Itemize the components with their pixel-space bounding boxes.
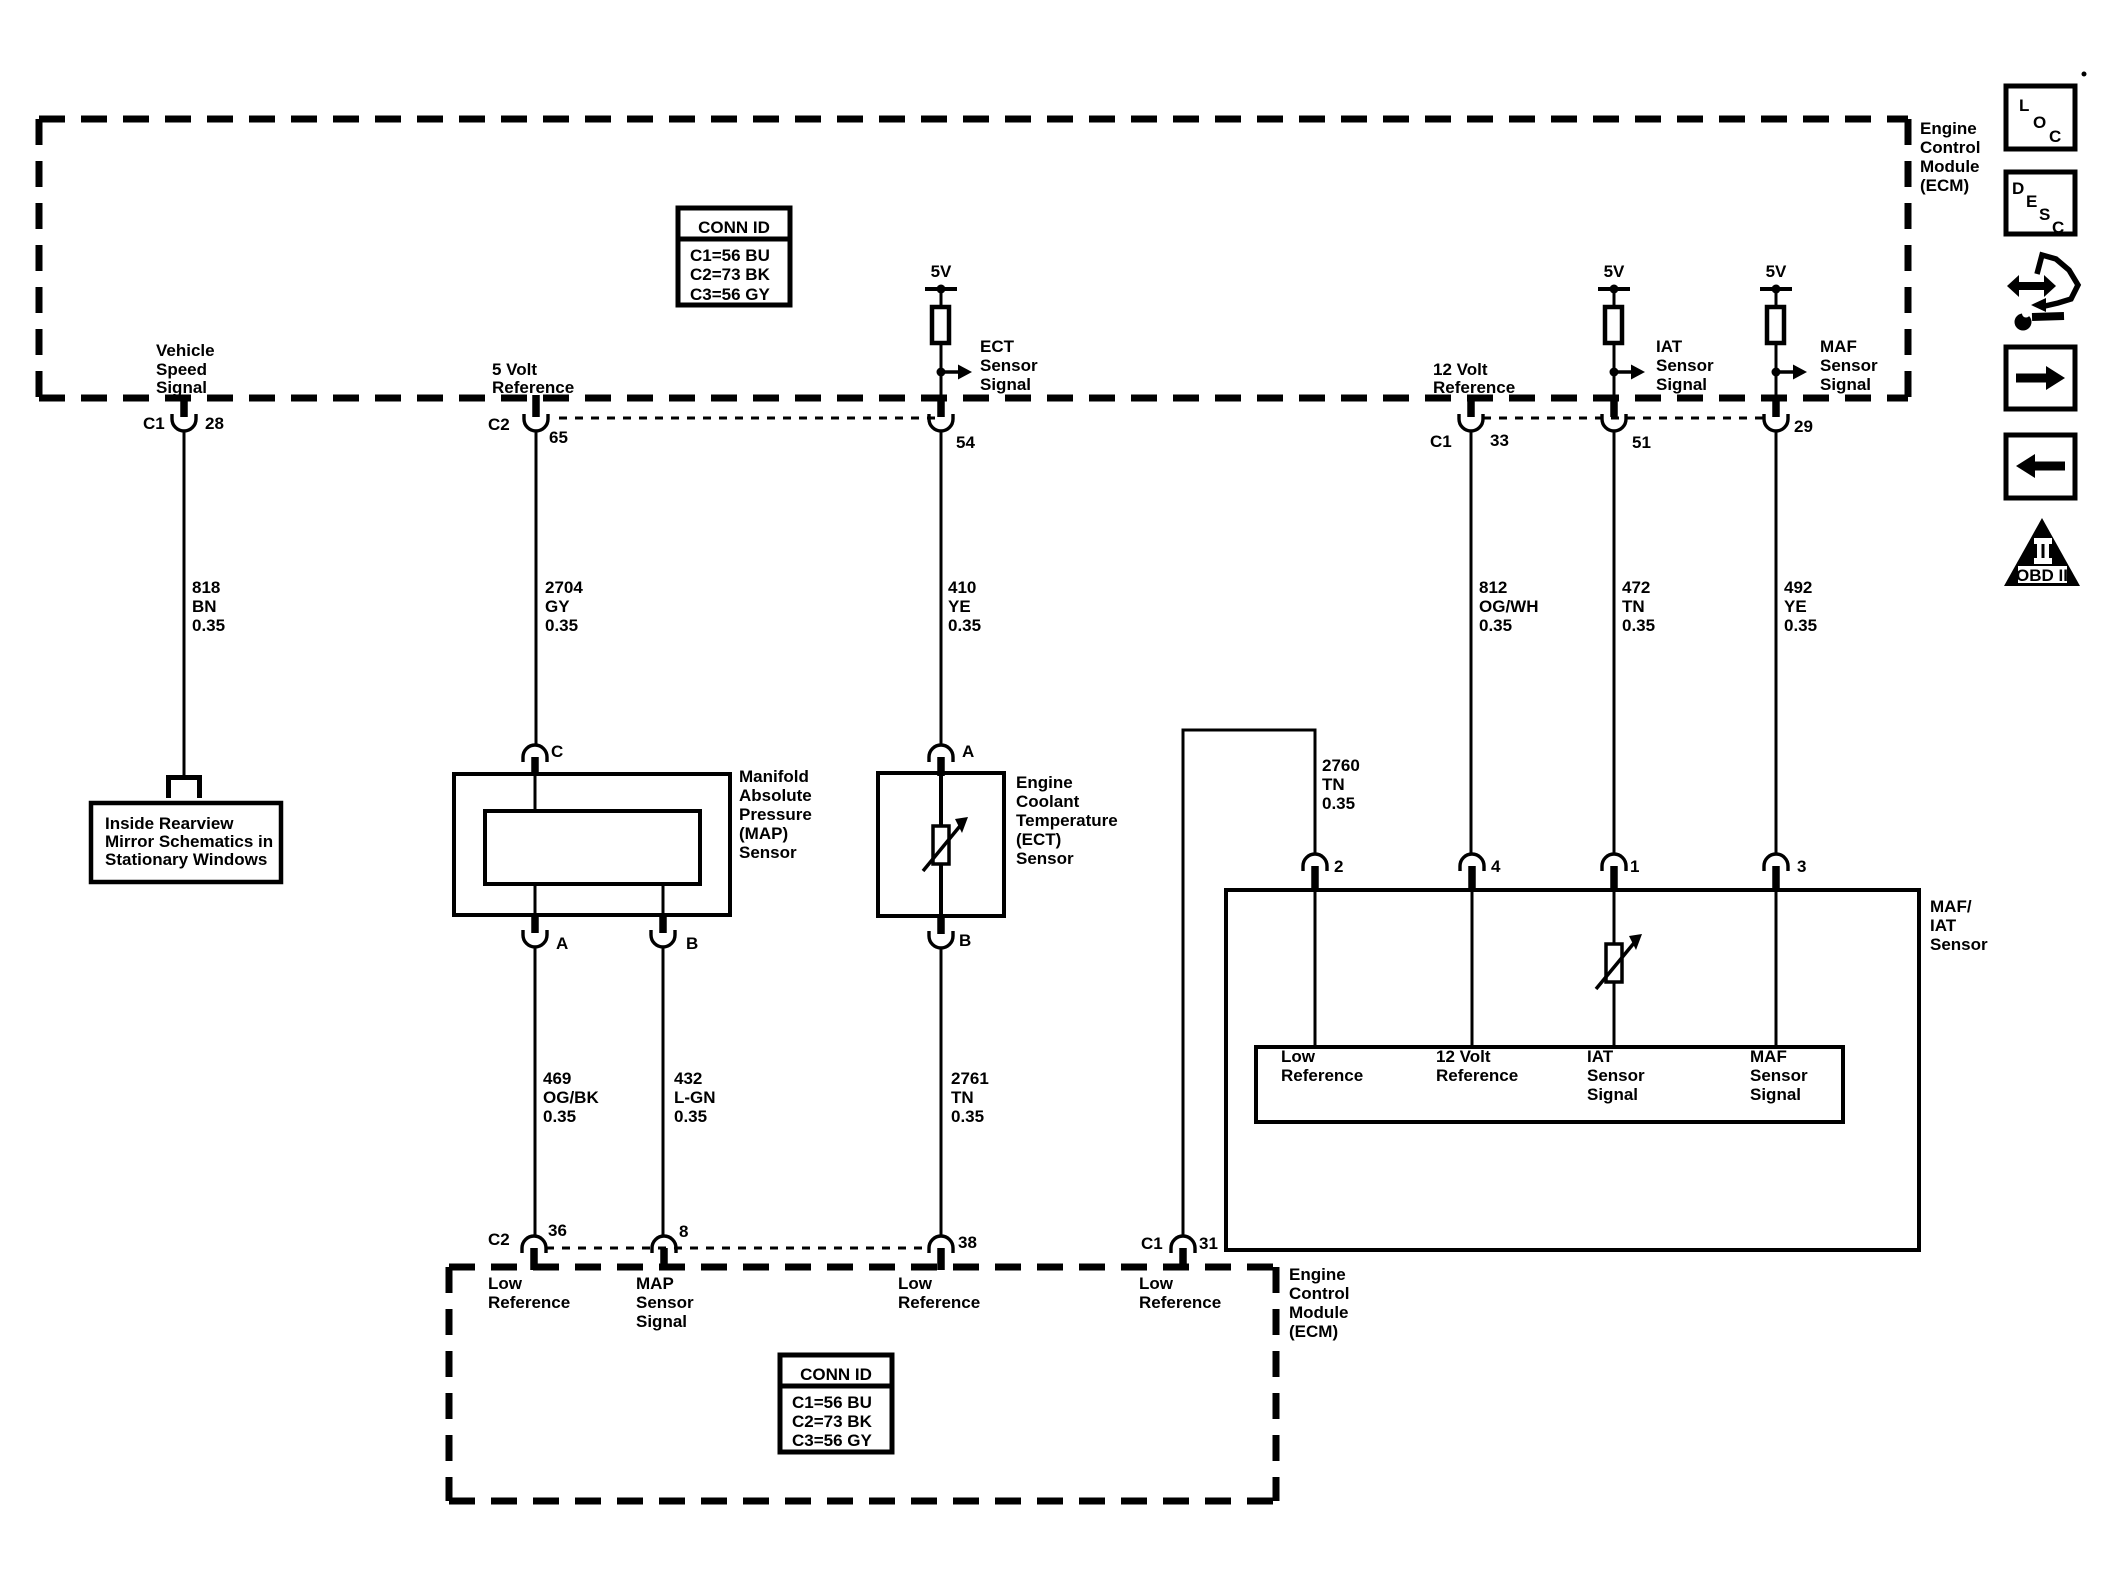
svg-text:GY: GY (545, 597, 570, 616)
icon wrench with arrows (2007, 255, 2078, 331)
svg-text:2704: 2704 (545, 578, 583, 597)
node Vehicle Speed Signal label (156, 341, 215, 397)
svg-text:0.35: 0.35 (948, 616, 981, 635)
Inside Rearview Mirror reference box (91, 803, 281, 882)
connector C2 pin 65 (488, 395, 568, 447)
svg-text:CONN ID: CONN ID (800, 1365, 872, 1384)
connector C1 pin 31 (1141, 1234, 1218, 1270)
svg-text:5V: 5V (931, 262, 952, 281)
svg-text:Sensor: Sensor (1930, 935, 1988, 954)
svg-text:TN: TN (1622, 597, 1645, 616)
wire 492 YE 0.35 (1776, 430, 1817, 854)
junction IAT signal (1610, 368, 1619, 377)
wire 818 BN 0.35 (184, 430, 225, 775)
svg-text:29: 29 (1794, 417, 1813, 436)
svg-text:Control: Control (1289, 1284, 1349, 1303)
svg-text:0.35: 0.35 (543, 1107, 576, 1126)
label MAF/IAT Sensor (1930, 897, 1988, 954)
wire (1613, 343, 1616, 398)
svg-text:28: 28 (205, 414, 224, 433)
svg-text:(ECM): (ECM) (1920, 176, 1969, 195)
svg-text:Sensor: Sensor (1587, 1066, 1645, 1085)
5V supply IAT (1598, 262, 1630, 307)
svg-text:(MAP): (MAP) (739, 824, 788, 843)
MAF/IAT pin function labels (1281, 1047, 1808, 1104)
svg-text:Sensor: Sensor (1820, 356, 1878, 375)
terminator to rearview mirror schematic (169, 778, 200, 799)
svg-text:Module: Module (1289, 1303, 1349, 1322)
5V supply ECT (925, 262, 957, 307)
svg-text:Low: Low (1281, 1047, 1316, 1066)
svg-text:33: 33 (1490, 431, 1509, 450)
svg-text:818: 818 (192, 578, 220, 597)
wire 812 OG/WH 0.35 (1471, 430, 1539, 854)
svg-text:Signal: Signal (1750, 1085, 1801, 1104)
svg-text:Low: Low (898, 1274, 933, 1293)
svg-text:TN: TN (951, 1088, 974, 1107)
svg-text:Engine: Engine (1920, 119, 1977, 138)
svg-text:5V: 5V (1604, 262, 1625, 281)
svg-text:36: 36 (548, 1221, 567, 1240)
svg-text:YE: YE (1784, 597, 1807, 616)
svg-text:S: S (2039, 205, 2050, 224)
svg-text:0.35: 0.35 (1784, 616, 1817, 635)
svg-text:Speed: Speed (156, 360, 207, 379)
arrow MAF Sensor Signal (1776, 337, 1878, 394)
arrow IAT Sensor Signal (1614, 337, 1714, 394)
svg-text:Low: Low (488, 1274, 523, 1293)
svg-text:YE: YE (948, 597, 971, 616)
svg-text:492: 492 (1784, 578, 1812, 597)
svg-text:0.35: 0.35 (674, 1107, 707, 1126)
svg-text:Reference: Reference (898, 1293, 980, 1312)
svg-text:C: C (2049, 127, 2061, 146)
connector pin A at ECT (929, 742, 974, 776)
svg-text:12 Volt: 12 Volt (1436, 1047, 1491, 1066)
svg-text:31: 31 (1199, 1234, 1218, 1253)
svg-text:Signal: Signal (980, 375, 1031, 394)
svg-text:IAT: IAT (1587, 1047, 1614, 1066)
svg-text:C1: C1 (143, 414, 165, 433)
svg-text:C: C (551, 742, 563, 761)
svg-text:L: L (2019, 96, 2029, 115)
svg-text:C1=56 BU: C1=56 BU (792, 1393, 872, 1412)
svg-text:Sensor: Sensor (1016, 849, 1074, 868)
connector pin 29 (1764, 395, 1813, 436)
svg-text:38: 38 (958, 1233, 977, 1252)
wire 410 YE 0.35 (941, 430, 981, 745)
connector pin 51 (1602, 395, 1651, 452)
svg-text:Sensor: Sensor (1750, 1066, 1808, 1085)
ECT sensor box (878, 773, 1004, 916)
svg-text:CONN ID: CONN ID (698, 218, 770, 237)
svg-text:C3=56 GY: C3=56 GY (690, 285, 771, 304)
svg-text:C1: C1 (1141, 1234, 1163, 1253)
thermistor ECT (923, 817, 968, 871)
svg-text:(ECT): (ECT) (1016, 830, 1061, 849)
svg-text:C1: C1 (1430, 432, 1452, 451)
ECM lower box dashed border (449, 1267, 1276, 1501)
wire 2760 TN 0.35 routed up and over (1183, 730, 1360, 1236)
wire (1775, 343, 1778, 398)
label Engine Control Module (ECM) top right (1920, 119, 1980, 195)
label Engine Coolant Temperature (ECT) Sensor (1016, 773, 1118, 868)
connector pin B at ECT (929, 914, 971, 950)
node 5 Volt Reference label (492, 360, 574, 397)
svg-text:5V: 5V (1766, 262, 1787, 281)
svg-text:TN: TN (1322, 775, 1345, 794)
svg-text:Coolant: Coolant (1016, 792, 1080, 811)
svg-text:Sensor: Sensor (636, 1293, 694, 1312)
thermistor IAT (1596, 934, 1642, 989)
svg-text:469: 469 (543, 1069, 571, 1088)
svg-text:Absolute: Absolute (739, 786, 812, 805)
connector pin 38 (929, 1233, 977, 1270)
resistor IAT pull-up (1605, 307, 1622, 343)
svg-text:Module: Module (1920, 157, 1980, 176)
wire 2761 TN 0.35 (941, 948, 989, 1236)
svg-text:54: 54 (956, 433, 975, 452)
svg-text:8: 8 (679, 1222, 688, 1241)
svg-text:Reference: Reference (1436, 1066, 1518, 1085)
svg-text:IAT: IAT (1656, 337, 1683, 356)
svg-text:C2=73 BK: C2=73 BK (690, 265, 771, 284)
svg-text:Control: Control (1920, 138, 1980, 157)
connector pin 2 at MAF/IAT (1303, 854, 1343, 891)
connector pin B at MAP (651, 913, 698, 953)
svg-text:Sensor: Sensor (980, 356, 1038, 375)
connector pin 3 at MAF/IAT (1764, 854, 1806, 891)
svg-text:E: E (2026, 192, 2037, 211)
svg-text:0.35: 0.35 (545, 616, 578, 635)
label Manifold Absolute Pressure (MAP) Sensor (739, 767, 812, 862)
wire 469 OG/BK 0.35 (535, 947, 599, 1236)
svg-text:OG/WH: OG/WH (1479, 597, 1539, 616)
arrow ECT Sensor Signal (941, 337, 1038, 394)
connector pin 1 at MAF/IAT (1602, 854, 1639, 891)
svg-text:Manifold: Manifold (739, 767, 809, 786)
connector pin C at MAP (523, 742, 563, 776)
svg-text:472: 472 (1622, 578, 1650, 597)
connector C2 pin 36 (488, 1221, 567, 1270)
icon LOC (2006, 86, 2075, 149)
svg-text:0.35: 0.35 (951, 1107, 984, 1126)
svg-text:Engine: Engine (1289, 1265, 1346, 1284)
connector C1 pin 28 (143, 395, 224, 433)
svg-text:MAF: MAF (1820, 337, 1857, 356)
svg-text:Signal: Signal (1656, 375, 1707, 394)
svg-text:Signal: Signal (156, 378, 207, 397)
svg-text:Low: Low (1139, 1274, 1174, 1293)
harness dotted line 36 to 38 (546, 1247, 929, 1250)
ECM top box dashed border (39, 119, 1908, 398)
svg-text:0.35: 0.35 (192, 616, 225, 635)
svg-text:OBD II: OBD II (2016, 566, 2068, 585)
icon arrow left (2006, 435, 2075, 498)
svg-text:2760: 2760 (1322, 756, 1360, 775)
icon arrow right (2006, 347, 2075, 409)
CONN ID table bottom (780, 1355, 892, 1452)
resistor ECT pull-up (932, 307, 949, 343)
svg-text:Signal: Signal (1587, 1085, 1638, 1104)
connector pin A at MAP (523, 913, 568, 953)
MAF/IAT sensor box (1226, 890, 1919, 1250)
svg-text:Mirror Schematics in: Mirror Schematics in (105, 832, 273, 851)
CONN ID table top (678, 208, 790, 305)
5V supply MAF (1760, 262, 1792, 307)
harness dotted line 65 to 54 (559, 417, 935, 420)
svg-text:Engine: Engine (1016, 773, 1073, 792)
svg-text:0.35: 0.35 (1322, 794, 1355, 813)
stray dot top right (2082, 72, 2087, 77)
svg-text:2: 2 (1334, 857, 1343, 876)
svg-text:(ECM): (ECM) (1289, 1322, 1338, 1341)
wire (940, 343, 943, 398)
svg-text:A: A (962, 742, 974, 761)
svg-text:Pressure: Pressure (739, 805, 812, 824)
svg-text:1: 1 (1630, 857, 1639, 876)
svg-text:O: O (2033, 113, 2046, 132)
connector pin 54 (929, 395, 975, 452)
svg-text:L-GN: L-GN (674, 1088, 716, 1107)
svg-text:Temperature: Temperature (1016, 811, 1118, 830)
svg-text:5 Volt: 5 Volt (492, 360, 537, 379)
svg-text:C: C (2052, 218, 2064, 237)
svg-text:812: 812 (1479, 578, 1507, 597)
svg-text:4: 4 (1491, 857, 1501, 876)
svg-text:C3=56 GY: C3=56 GY (792, 1431, 873, 1450)
connector C1 pin 33 (1430, 395, 1509, 451)
svg-text:B: B (686, 934, 698, 953)
svg-text:MAF: MAF (1750, 1047, 1787, 1066)
connector pin 4 at MAF/IAT (1460, 854, 1501, 891)
svg-text:Reference: Reference (1281, 1066, 1363, 1085)
svg-text:Stationary Windows: Stationary Windows (105, 850, 267, 869)
icon DESC (2006, 172, 2075, 237)
node 12 Volt Reference label (1433, 360, 1515, 397)
svg-text:65: 65 (549, 428, 568, 447)
svg-text:410: 410 (948, 578, 976, 597)
label Engine Control Module (ECM) lower (1289, 1265, 1349, 1341)
svg-text:C2: C2 (488, 415, 510, 434)
svg-text:BN: BN (192, 597, 217, 616)
svg-text:Vehicle: Vehicle (156, 341, 215, 360)
svg-text:MAF/: MAF/ (1930, 897, 1972, 916)
svg-text:Inside Rearview: Inside Rearview (105, 814, 234, 833)
svg-text:Signal: Signal (636, 1312, 687, 1331)
wire 432 L-GN 0.35 (663, 947, 716, 1236)
svg-text:C2: C2 (488, 1230, 510, 1249)
svg-text:C1=56 BU: C1=56 BU (690, 246, 770, 265)
svg-text:ECT: ECT (980, 337, 1015, 356)
ECM lower pin function labels (488, 1274, 1221, 1331)
svg-text:432: 432 (674, 1069, 702, 1088)
svg-text:IAT: IAT (1930, 916, 1957, 935)
junction MAF signal (1772, 368, 1781, 377)
svg-text:0.35: 0.35 (1622, 616, 1655, 635)
svg-text:Sensor: Sensor (1656, 356, 1714, 375)
harness dotted line 33 to 29 (1483, 417, 1766, 420)
wire 2704 GY 0.35 (536, 430, 583, 745)
svg-text:Signal: Signal (1820, 375, 1871, 394)
svg-text:3: 3 (1797, 857, 1806, 876)
svg-text:Reference: Reference (492, 378, 574, 397)
MAP sensor box (454, 774, 730, 915)
svg-text:2761: 2761 (951, 1069, 989, 1088)
svg-text:A: A (556, 934, 568, 953)
svg-text:12 Volt: 12 Volt (1433, 360, 1488, 379)
svg-text:51: 51 (1632, 433, 1651, 452)
svg-text:0.35: 0.35 (1479, 616, 1512, 635)
svg-text:OG/BK: OG/BK (543, 1088, 599, 1107)
wire 472 TN 0.35 (1614, 430, 1655, 854)
connector pin 8 (652, 1222, 688, 1270)
svg-text:Sensor: Sensor (739, 843, 797, 862)
icon OBD II triangle (2004, 518, 2080, 586)
svg-text:MAP: MAP (636, 1274, 674, 1293)
resistor MAF pull-up (1767, 307, 1784, 343)
svg-text:Reference: Reference (1139, 1293, 1221, 1312)
svg-text:B: B (959, 931, 971, 950)
junction ECT signal (937, 368, 946, 377)
svg-text:Reference: Reference (488, 1293, 570, 1312)
svg-text:D: D (2012, 179, 2024, 198)
svg-text:Reference: Reference (1433, 378, 1515, 397)
svg-text:C2=73 BK: C2=73 BK (792, 1412, 873, 1431)
